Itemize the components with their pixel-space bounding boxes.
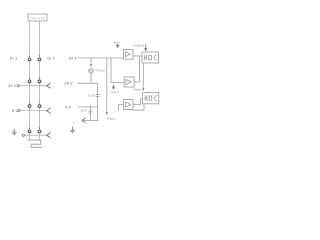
data contacts box A — [142, 52, 159, 63]
supply terminal symbol 0V — [18, 110, 20, 112]
terminal contact 3 0V — [28, 105, 31, 108]
wire earth row — [25, 134, 47, 136]
wire 0V feed — [78, 106, 98, 108]
svg-text:DI 1: DI 1 — [69, 56, 76, 60]
dot mark — [73, 122, 74, 123]
supply terminal symbol 24V — [17, 85, 19, 87]
power jumper contact 0V — [47, 108, 51, 113]
svg-text:Status: Status — [107, 117, 117, 121]
svg-text:DI 1: DI 1 — [10, 56, 17, 60]
wire 24V row — [20, 85, 47, 87]
terminal contact 4 earth — [28, 130, 31, 133]
earth symbol mid — [70, 127, 75, 133]
DIN rail profile — [28, 140, 42, 147]
wire U3 to bus box B — [133, 99, 143, 105]
capacitor C2 — [89, 111, 93, 113]
arrow status drop — [106, 112, 108, 115]
power jumper contact earth — [47, 133, 51, 138]
wire left column — [29, 21, 31, 140]
wire box B return — [134, 104, 144, 110]
wire C2 to bottom — [90, 113, 92, 120]
op-amp U1 — [124, 50, 134, 60]
earth symbol left — [12, 129, 17, 135]
wire U1 to bus box — [133, 55, 142, 57]
wire DI2 drop — [111, 58, 124, 82]
svg-text:Status: Status — [133, 88, 142, 92]
power jumper contact 24V — [47, 83, 51, 88]
module label box 750-400 — [28, 14, 47, 21]
arrow Feldbus into box A — [145, 44, 147, 51]
svg-text:0 V: 0 V — [66, 105, 73, 109]
data contacts box B — [143, 93, 159, 104]
current source I1 — [89, 69, 94, 74]
wire 24V feed — [78, 82, 98, 84]
junction 0V — [90, 106, 92, 108]
terminal contact 7 0V — [38, 105, 41, 108]
svg-text:Feldbus: Feldbus — [133, 43, 145, 47]
arrow into current source — [90, 64, 92, 67]
wire current source to 24V rail — [90, 73, 92, 83]
wire 0V down rail — [90, 107, 92, 111]
wire box A to box B — [142, 63, 144, 88]
svg-text:DI 2: DI 2 — [48, 56, 55, 60]
svg-text:24 V: 24 V — [8, 84, 17, 88]
wire 0V row — [20, 110, 46, 112]
capacitor C1 — [96, 95, 100, 97]
wire DI1 — [78, 57, 124, 59]
wire 24V down rail — [97, 83, 99, 94]
svg-text:10 nF: 10 nF — [80, 108, 87, 112]
svg-text:24 V: 24 V — [65, 82, 74, 86]
terminal contact 6 24V — [38, 80, 41, 83]
wire right column — [39, 21, 41, 140]
svg-text:Vref 1: Vref 1 — [113, 40, 121, 44]
supply terminal symbol earth — [22, 134, 24, 136]
wire U3 input stub — [119, 105, 124, 111]
svg-text:10 nF: 10 nF — [88, 94, 95, 98]
wire status drop — [106, 58, 108, 113]
wire U2 up to bus wire — [134, 56, 140, 82]
svg-text:750-400: 750-400 — [30, 16, 45, 20]
wire C1 to bottom — [97, 97, 99, 121]
wire branch to current source — [90, 58, 92, 65]
svg-text:470 kΩ: 470 kΩ — [95, 68, 105, 72]
terminal contact 5 DI2 — [38, 58, 41, 61]
wire bottom earth line — [82, 120, 98, 122]
LED arrow DI 1 — [117, 44, 119, 48]
arrow into box B — [142, 88, 144, 91]
terminal contact 1 DI1 — [28, 58, 31, 61]
svg-text:Vref 2: Vref 2 — [111, 90, 119, 94]
power jumper contact bottom — [82, 118, 86, 122]
op-amp U2 — [124, 77, 134, 87]
terminal contact 8 earth — [38, 130, 41, 133]
op-amp U3 — [124, 100, 134, 110]
LED arrow DI 2 — [112, 85, 114, 89]
terminal contact 2 24V — [28, 80, 31, 83]
